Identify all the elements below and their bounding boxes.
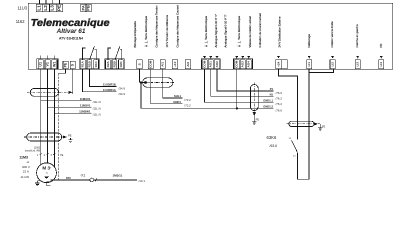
svg-text:⏚ ⊥ Terre éléctronique: ⏚ ⊥ Terre éléctronique — [236, 16, 241, 48]
svg-text:rotation vers la droite: rotation vers la droite — [330, 21, 334, 48]
junction dot shield — [140, 81, 143, 84]
svg-text:AO3: AO3 — [241, 61, 245, 68]
terminal R2A — [106, 60, 111, 69]
svg-text:PA5: PA5 — [66, 176, 71, 180]
terminal S — [137, 60, 142, 69]
potential arrows above AO terminals — [203, 56, 382, 58]
ground at AO shield — [252, 122, 256, 125]
terminal V1 — [45, 60, 50, 69]
wire motor PE to X1 — [51, 179, 90, 181]
svg-text:11M3U1: 11M3U1 — [80, 97, 91, 101]
shield drain arrow to PE — [63, 135, 67, 138]
wire S analog shield — [139, 69, 141, 82]
wire COM GND1.1 — [205, 69, 274, 102]
svg-text:10 V Tension de référence: 10 V Tension de référence — [165, 14, 169, 47]
svg-text:COM: COM — [235, 60, 239, 68]
svg-text:L2: L2 — [43, 5, 48, 11]
svg-text:R1A: R1A — [81, 60, 85, 67]
svg-text:W1: W1 — [52, 62, 56, 67]
terminal R1A — [80, 60, 85, 69]
leader wire name 11M3V1 — [48, 106, 92, 108]
terminal X1 — [90, 178, 94, 182]
wire AO1 N1 — [211, 69, 274, 96]
svg-text:/34.9: /34.9 — [119, 92, 126, 96]
svg-text:AO4: AO4 — [247, 61, 251, 68]
svg-text:/76.6: /76.6 — [276, 108, 283, 112]
svg-text:AO2: AO2 — [215, 61, 219, 68]
svg-text:S: S — [137, 63, 141, 65]
svg-text:COM: COM — [203, 60, 207, 68]
svg-text:LI1: LI1 — [307, 62, 311, 67]
terminal L3 — [50, 4, 57, 12]
svg-text:Consigne des fréquences Tensio: Consigne des fréquences Tension — [155, 5, 159, 48]
svg-text:SHL1: SHL1 — [174, 94, 182, 98]
wire COM-B to GND1.2 bus — [236, 69, 238, 108]
terminal COM — [234, 60, 239, 69]
terminal AO2 — [214, 60, 219, 69]
svg-text:R1B: R1B — [87, 60, 91, 67]
svg-text:11M3V1: 11M3V1 — [80, 103, 91, 107]
cable shield symbol AO bundle — [250, 85, 258, 111]
svg-text:+24: +24 — [277, 61, 281, 67]
terminal block mains input L1 L2 L3 PE — [36, 4, 63, 12]
svg-text:U1: U1 — [39, 62, 43, 67]
terminal AI1 — [160, 60, 165, 69]
svg-text:/76.2: /76.2 — [276, 96, 283, 100]
wire mains 1 from top — [39, 0, 41, 4]
shield drain arrow to dot — [142, 81, 146, 84]
svg-text:N1: N1 — [270, 93, 274, 97]
junction dot GND1.2 — [236, 107, 238, 109]
svg-text:V1: V1 — [46, 62, 50, 66]
svg-text:R2B: R2B — [112, 60, 116, 67]
motor PE link — [37, 180, 40, 181]
svg-text:PA: PA — [80, 5, 85, 10]
svg-text:11U3: 11U3 — [18, 6, 28, 11]
wire +24 to switch — [279, 69, 298, 139]
svg-text:PR: PR — [379, 44, 383, 48]
terminal group AO A — [201, 59, 220, 69]
svg-text:22 A: 22 A — [23, 170, 30, 174]
svg-text:Vitesse de rotation actuel: Vitesse de rotation actuel — [248, 16, 252, 48]
svg-text:/76.6: /76.6 — [276, 91, 283, 95]
terminal LI3 — [355, 60, 360, 69]
relay contact R1 (changeover) — [82, 46, 96, 60]
cable shield symbol control pair — [289, 121, 314, 126]
svg-text:marche en gauche: marche en gauche — [355, 24, 359, 48]
svg-text:63K6: 63K6 — [267, 135, 277, 140]
svg-text:GND1: GND1 — [173, 100, 181, 104]
PE clamp bracket — [47, 182, 51, 186]
wire shield to GND1.2 bus — [140, 83, 142, 109]
shield axis dash-dot 4 — [253, 83, 255, 114]
svg-text:11U3/R1B: 11U3/R1B — [103, 83, 116, 87]
svg-text:LI3: LI3 — [356, 62, 360, 67]
svg-text:Déblocage: Déblocage — [307, 34, 311, 48]
svg-text:Blindage Antiparasite: Blindage Antiparasite — [133, 21, 137, 48]
terminal R1C — [94, 60, 99, 69]
svg-text:11M3: 11M3 — [19, 156, 28, 160]
svg-text:-X1: -X1 — [80, 173, 85, 177]
switch contact 63K6 — [292, 140, 298, 153]
PE drop — [70, 138, 72, 140]
svg-text:Analogue Signal 0-10 V “n”: Analogue Signal 0-10 V “n” — [214, 14, 218, 48]
wire 1M3/11 — [94, 179, 137, 181]
wire COM to GND1 — [151, 69, 183, 103]
svg-text:/11L.N: /11L.N — [93, 100, 101, 104]
ground at control shield — [318, 128, 322, 131]
terminal AO1 — [208, 60, 213, 69]
svg-text:LI4: LI4 — [379, 62, 383, 67]
terminal group motor output — [37, 59, 58, 69]
svg-text:1162: 1162 — [16, 19, 26, 24]
wire U1 to motor — [40, 69, 42, 164]
spare terminal cell — [282, 60, 288, 69]
wire S shield drain — [72, 69, 74, 94]
stub above W1 — [53, 56, 55, 59]
terminal R2C — [119, 60, 124, 69]
svg-text:-Δ: -Δ — [26, 160, 29, 164]
cable shield symbol motor cable upper — [30, 88, 58, 96]
svg-text:/34.9: /34.9 — [119, 87, 126, 91]
leader wire name 11M3U1 — [41, 100, 92, 102]
terminal group AO B — [234, 59, 253, 69]
wire V1 to motor — [47, 69, 49, 163]
wire LI1 loop — [298, 69, 309, 179]
ground at shield2 — [68, 140, 72, 143]
motor terminal ticks — [40, 153, 56, 154]
wire AI1 to SHL1 — [163, 69, 183, 98]
svg-text:ATV 61HD11N4: ATV 61HD11N4 — [59, 36, 83, 40]
svg-text:PE: PE — [56, 5, 61, 11]
motor 11M3 (M 3~) — [37, 163, 57, 183]
shield axis dash-dot 2 — [24, 136, 63, 138]
svg-text:Consigne des fréquences Couran: Consigne des fréquences Courant — [175, 5, 179, 48]
terminal PB — [86, 4, 92, 12]
wire mains 4 from top — [58, 0, 60, 4]
terminal slash N — [95, 178, 97, 181]
wire mains 3 from top — [52, 0, 54, 4]
leader wire name 11M3W1 — [54, 112, 91, 114]
terminal W1 — [52, 60, 57, 69]
svg-text:24 V Distribution Externe: 24 V Distribution Externe — [277, 16, 281, 47]
stub above U1 — [40, 56, 42, 59]
svg-text:/11L.N: /11L.N — [93, 113, 101, 117]
terminal +24 — [276, 60, 282, 69]
wire W1 to motor — [53, 69, 55, 166]
svg-text:anschl.zü. /4B: anschl.zü. /4B — [25, 149, 40, 152]
svg-text:/72.2: /72.2 — [184, 104, 191, 108]
wire PE from terminal — [59, 69, 66, 73]
svg-text:+10: +10 — [173, 61, 177, 67]
svg-text:11U3/R1A: 11U3/R1A — [103, 88, 116, 92]
svg-text:L3: L3 — [50, 5, 55, 11]
svg-text:/63.6: /63.6 — [270, 144, 278, 148]
terminal PA — [80, 4, 86, 12]
svg-text:GND1.2: GND1.2 — [263, 105, 273, 109]
drive enclosure U3 (ATV61) — [28, 3, 393, 69]
svg-text:/76.2: /76.2 — [276, 102, 283, 106]
terminal R2B — [112, 60, 117, 69]
svg-text:L1: L1 — [36, 5, 41, 11]
svg-text:PE: PE — [322, 125, 326, 128]
wire GND1.2 bus — [141, 107, 274, 109]
svg-text:Analogue Signal 0-10 V “I”: Analogue Signal 0-10 V “I” — [224, 15, 228, 48]
ground at motor — [35, 183, 40, 186]
svg-text:PE: PE — [68, 134, 72, 138]
shield axis dash-dot 3 — [140, 82, 175, 84]
terminal LI4 — [379, 60, 384, 69]
svg-text:11M3W1: 11M3W1 — [79, 110, 91, 114]
terminal AI2 — [185, 60, 190, 69]
terminal PE — [56, 4, 63, 12]
svg-text:/13.1: /13.1 — [139, 179, 146, 183]
terminal U1 — [38, 60, 43, 69]
wire mains 2 from top — [45, 0, 47, 4]
wire R1A — [82, 69, 116, 92]
svg-text:COM: COM — [149, 60, 153, 68]
svg-text:PE: PE — [60, 155, 64, 157]
relay contact R2 (changeover) — [108, 46, 122, 60]
svg-text:P1: P1 — [270, 87, 274, 91]
svg-text:GND1.1: GND1.1 — [263, 98, 273, 102]
terminal AO3 — [240, 60, 245, 69]
svg-text:400 V: 400 V — [22, 165, 31, 169]
svg-text:PB: PB — [86, 5, 91, 11]
svg-text:R2C: R2C — [119, 60, 123, 67]
svg-text:/11L.N: /11L.N — [93, 106, 101, 110]
shield drain arrow control — [314, 122, 318, 125]
terminal R1B — [87, 60, 92, 69]
svg-text:R1C: R1C — [94, 60, 98, 67]
wire PE dashed run — [58, 73, 60, 181]
shield axis dash-dot 5 — [287, 123, 316, 125]
svg-text:/72.2: /72.2 — [184, 98, 191, 102]
terminal +10 — [172, 60, 177, 69]
wire R1B — [89, 69, 116, 86]
cable shield symbol analog pair — [143, 78, 173, 88]
shield drain arrow down — [253, 112, 256, 116]
svg-text:AI2: AI2 — [186, 62, 190, 67]
terminal COM — [148, 60, 153, 69]
svg-text:1M3/11: 1M3/11 — [113, 174, 123, 178]
terminal COM — [202, 60, 207, 69]
svg-text:⏚ ⊥ Terre éléctronique: ⏚ ⊥ Terre éléctronique — [203, 16, 208, 48]
terminal AO4 — [246, 60, 251, 69]
terminal PE — [63, 61, 68, 69]
PE link control — [318, 123, 320, 125]
jumper LI1 to LI2 — [309, 69, 333, 72]
stub above V1 — [47, 56, 49, 59]
svg-text:LI2: LI2 — [331, 62, 335, 67]
svg-text:AO1: AO1 — [209, 61, 213, 68]
svg-text:⏚ ⊥ Terre éléctronique: ⏚ ⊥ Terre éléctronique — [143, 16, 148, 48]
terminal LI1 — [307, 60, 312, 69]
svg-text:PE: PE — [256, 117, 260, 121]
svg-text:AI1: AI1 — [161, 62, 165, 67]
terminal L2 — [43, 4, 50, 12]
terminal LI2 — [330, 60, 335, 69]
terminal S motor shield — [70, 61, 75, 69]
terminal L1 — [36, 4, 43, 12]
PE drop AO — [253, 116, 255, 121]
svg-text:R2A: R2A — [106, 60, 110, 67]
shield axis dash-dot — [27, 91, 68, 93]
terminal group R2 — [105, 59, 124, 69]
wire AO2 P1 — [217, 69, 274, 91]
cable shield symbol motor cable lower — [27, 133, 62, 141]
terminal group R1 — [80, 59, 99, 69]
svg-text:PE: PE — [64, 62, 68, 67]
svg-text:Altivar 61: Altivar 61 — [56, 28, 86, 35]
shield drain arrow to S — [68, 91, 72, 94]
svg-text:Indication du courant actuel: Indication du courant actuel — [258, 13, 262, 48]
svg-text:11 kW: 11 kW — [20, 175, 29, 179]
